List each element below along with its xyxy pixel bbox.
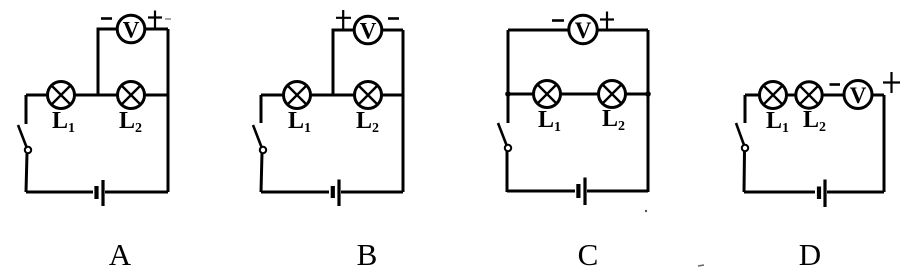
wire: B middle horizontal bbox=[261, 94, 403, 97]
wire: A left vertical lower (switch to bottom corner) bbox=[26, 153, 27, 192]
wire: D top horizontal (all in series) bbox=[745, 94, 884, 97]
scan noise speck below C bbox=[698, 265, 704, 266]
switch S (C) pivot circle bbox=[505, 145, 511, 151]
battery (A) long positive plate bbox=[101, 180, 104, 206]
lamp L2 (A) bbox=[118, 82, 145, 109]
svg-text:D: D bbox=[799, 237, 821, 272]
lamp L1 (D) bbox=[760, 82, 787, 109]
minus polarity label (A, left of voltmeter) bbox=[101, 17, 112, 20]
wire: C left vertical upper bbox=[507, 30, 510, 123]
lamp L1 (B) bbox=[284, 82, 311, 109]
wire: B bottom left bbox=[261, 191, 329, 194]
wire: B left vertical upper bbox=[260, 95, 263, 123]
switch S (A, open) lever bbox=[18, 125, 27, 147]
junction node (C left, middle wire) bbox=[505, 91, 511, 97]
scan noise speck near C bottom bbox=[645, 210, 647, 212]
wire: B bottom right bbox=[341, 191, 403, 194]
wire: D left vertical upper bbox=[744, 95, 747, 123]
wire: A left vertical upper (to switch) bbox=[25, 95, 28, 124]
wire: C bottom left bbox=[507, 190, 575, 193]
lamp L2 (C) bbox=[599, 81, 626, 108]
plus polarity label (C, right of voltmeter) bbox=[600, 12, 614, 32]
voltmeter V (D, in series) bbox=[844, 81, 872, 109]
voltmeter V (B) bbox=[354, 16, 382, 44]
battery (D) long positive plate bbox=[823, 180, 826, 208]
wire: D right vertical bbox=[883, 95, 886, 192]
switch S (B) pivot circle bbox=[260, 147, 266, 153]
wire: C bottom right bbox=[587, 190, 648, 193]
junction node (C right, middle wire) bbox=[645, 91, 651, 97]
wire: C middle horizontal bbox=[508, 93, 648, 96]
switch S (D) pivot circle bbox=[742, 145, 748, 151]
svg-text:V: V bbox=[575, 18, 592, 43]
wire: B left vertical lower bbox=[261, 153, 262, 192]
wire: C right vertical bbox=[647, 30, 650, 192]
wire: A voltmeter branch (junction up, across top to right corner) bbox=[98, 29, 168, 95]
lamp L1 (C) bbox=[534, 81, 561, 108]
voltmeter V (A) bbox=[117, 15, 145, 43]
svg-text:B: B bbox=[357, 237, 378, 272]
plus polarity label (A, right of voltmeter) bbox=[148, 11, 162, 29]
battery (B) long positive plate bbox=[337, 180, 340, 207]
switch S (A) pivot circle bbox=[25, 147, 31, 153]
minus polarity label (B, right of voltmeter) bbox=[388, 17, 399, 20]
wire: B right vertical bbox=[402, 30, 405, 192]
svg-text:V: V bbox=[360, 19, 377, 44]
switch S (D) lever bbox=[736, 123, 744, 145]
svg-text:A: A bbox=[109, 237, 132, 272]
battery (C) short negative plate bbox=[576, 184, 580, 198]
wire: D left vertical lower bbox=[743, 151, 747, 192]
battery (B) short negative plate bbox=[331, 186, 335, 198]
wire: D bottom right bbox=[827, 191, 884, 194]
wire: A bottom right (battery to corner) bbox=[105, 191, 168, 194]
lamp L1 (A) bbox=[48, 82, 75, 109]
wire: A middle horizontal bbox=[26, 94, 168, 97]
wire: B voltmeter branch bbox=[333, 30, 403, 95]
svg-text:V: V bbox=[850, 83, 867, 108]
svg-text:C: C bbox=[578, 237, 599, 272]
switch S (B) lever bbox=[253, 125, 262, 147]
wire: C top horizontal (voltmeter across supply) bbox=[508, 29, 648, 32]
plus polarity label (D, right of voltmeter) bbox=[883, 72, 900, 93]
wire: A bottom left (corner to battery) bbox=[26, 191, 93, 194]
battery (D) short negative plate bbox=[817, 187, 821, 200]
battery (C) long positive plate bbox=[583, 178, 586, 206]
wire: A right vertical bbox=[167, 29, 170, 192]
scan noise dash right of A plus bbox=[165, 18, 171, 20]
minus polarity label (C, left of voltmeter) bbox=[552, 19, 564, 22]
svg-text:V: V bbox=[123, 18, 140, 43]
lamp L2 (B) bbox=[355, 82, 382, 109]
switch S (C) lever bbox=[498, 123, 507, 145]
lamp L2 (D) bbox=[796, 82, 822, 108]
wire: D bottom left bbox=[744, 191, 815, 194]
wire: C left vertical lower bbox=[506, 151, 509, 192]
voltmeter V (C) bbox=[569, 15, 597, 43]
plus polarity label (B, left of voltmeter) bbox=[336, 10, 351, 30]
minus polarity label (D, left of voltmeter) bbox=[830, 83, 841, 86]
battery (A) short negative plate bbox=[94, 186, 98, 199]
